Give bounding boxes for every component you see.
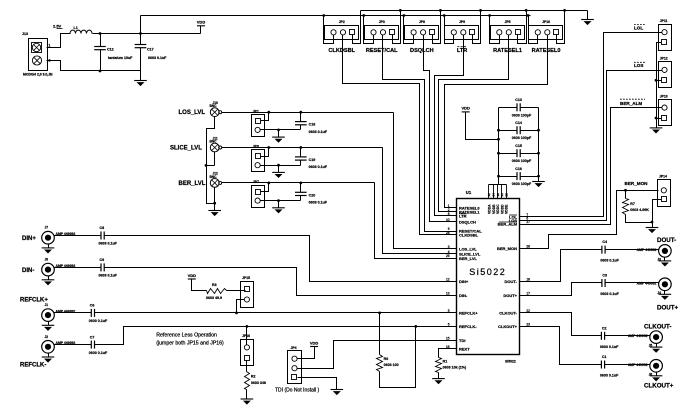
wire LOL from chip pin 7	[526, 33, 662, 217]
wire JP9 pin1 to VDD rail	[445, 16, 454, 44]
U1 pin 4 SLICE_LVL	[451, 253, 457, 255]
svg-text:J2: J2	[45, 335, 49, 339]
node JP9 VDD rail junction	[443, 14, 446, 17]
svg-text:JP1: JP1	[253, 109, 259, 113]
svg-text:Reference Less Operation: Reference Less Operation	[156, 333, 217, 339]
svg-text:C3: C3	[602, 274, 607, 278]
U1 pin 27 BER_ALM	[520, 224, 526, 226]
wire SLICE_LVL to chip	[383, 148, 451, 254]
U1 pin 1 RATESEL0	[451, 207, 457, 209]
svg-text:C9: C9	[100, 258, 105, 262]
svg-text:LTR: LTR	[457, 48, 467, 54]
svg-text:DIN+: DIN+	[459, 279, 469, 284]
U1 pin 17 DOUT+	[520, 295, 526, 297]
node JP6 signal junction	[267, 146, 270, 149]
svg-text:1: 1	[49, 44, 51, 48]
resistor R3	[207, 289, 227, 294]
node C20 top junction	[299, 182, 302, 185]
svg-text:CLKOUT-: CLKOUT-	[499, 311, 517, 316]
wire JP2 pin3 to GND rail	[353, 11, 361, 44]
ground at JP7	[278, 201, 280, 208]
U1 pin 7 LOL	[520, 216, 526, 218]
connector J12 BER_LVL BNC	[210, 179, 219, 188]
U1 pin 22 CLKOUT-	[520, 312, 526, 314]
svg-text:JP2: JP2	[339, 20, 345, 24]
svg-text:R2: R2	[251, 375, 256, 379]
svg-text:C15: C15	[515, 144, 522, 148]
wire JP4 pin3 to ground	[298, 378, 337, 390]
node JP7 gnd tap	[277, 199, 280, 202]
capacitor C14	[499, 130, 517, 132]
svg-text:BNC: BNC	[210, 175, 218, 179]
capacitor C1	[600, 361, 602, 369]
node R7 junction	[624, 189, 627, 192]
svg-text:U1: U1	[466, 190, 472, 195]
U1 pin 24 CLKDSBL	[451, 234, 457, 236]
wire JP11 JP12 JP13 ground chain	[657, 43, 662, 128]
svg-text:DIN-: DIN-	[459, 293, 468, 298]
svg-text:SLICE_LVL: SLICE_LVL	[170, 146, 202, 152]
ground at J8	[48, 276, 50, 280]
wire J1 to C6	[54, 312, 92, 314]
U1 pin 23 CLKOUT+	[520, 326, 526, 328]
svg-text:C2: C2	[602, 326, 607, 330]
VDD symbol at input filter	[197, 25, 205, 27]
svg-text:28: 28	[504, 193, 508, 197]
node JP10 GND rail junction	[563, 9, 566, 12]
connector J7 DIN+ SMA	[42, 231, 55, 244]
svg-text:VDDE: VDDE	[505, 204, 509, 214]
svg-text:JP11: JP11	[660, 19, 668, 23]
svg-text:JP12: JP12	[660, 57, 668, 61]
capacitor C16	[499, 176, 517, 178]
svg-text:JP9: JP9	[459, 20, 465, 24]
svg-text:R3: R3	[212, 283, 217, 287]
svg-text:6: 6	[448, 322, 450, 326]
wire DOUT- from chip	[526, 250, 602, 282]
svg-text:BER_ALM: BER_ALM	[620, 101, 642, 106]
node JP2 VDD rail junction	[322, 14, 325, 17]
ground below R2	[246, 390, 248, 399]
capacitor C4	[601, 246, 603, 254]
U1 pin 28 BER_MON	[520, 248, 526, 250]
svg-text:15: 15	[446, 337, 450, 341]
svg-text:2.5V: 2.5V	[53, 24, 62, 29]
wire JP6 circle pin to ground	[261, 165, 301, 167]
svg-text:L1: L1	[74, 26, 78, 30]
svg-text:VDD: VDD	[310, 340, 319, 345]
wire JP10 pin1 to VDD rail	[529, 16, 538, 44]
svg-text:J7: J7	[45, 226, 49, 230]
jumper JP15	[241, 282, 254, 308]
svg-text:0603 100pF: 0603 100pF	[512, 182, 532, 186]
wire JP14 pin2 to ground	[653, 200, 662, 228]
svg-text:0603 0.1uF: 0603 0.1uF	[600, 345, 619, 349]
wire JP9 pin3 to GND rail	[473, 11, 481, 44]
node JP8 VDD rail junction	[403, 14, 406, 17]
svg-text:JP15: JP15	[242, 276, 250, 280]
wire DOUT+ from chip	[526, 283, 602, 296]
svg-text:0603 0.1uF: 0603 0.1uF	[89, 351, 108, 355]
VDD feed for cap ladder	[462, 111, 470, 113]
svg-text:MODGH 2,9 3.0,JB: MODGH 2,9 3.0,JB	[23, 73, 53, 77]
svg-text:LOL: LOL	[634, 26, 643, 31]
capacitor C18	[300, 113, 302, 122]
svg-text:JP14: JP14	[659, 174, 667, 178]
svg-text:DOUT-: DOUT-	[505, 279, 518, 284]
capacitor C7	[90, 341, 92, 349]
connector J4 DOUT+ SMA	[659, 278, 672, 291]
svg-text:0603 0.1uF: 0603 0.1uF	[148, 56, 167, 60]
wire JP15 pin2 to REFCLK+	[237, 300, 245, 313]
BNC shield chain	[207, 117, 215, 204]
jumper JP14	[658, 180, 671, 207]
wire C4 to J3	[606, 249, 659, 251]
svg-text:0603 0.1uF: 0603 0.1uF	[99, 274, 118, 278]
node JP5 VDD rail junction	[488, 14, 491, 17]
ground at J7	[48, 245, 50, 248]
svg-text:DSQLCH: DSQLCH	[410, 48, 434, 54]
ground at J3	[664, 258, 666, 261]
svg-text:C19: C19	[309, 158, 316, 162]
svg-text:24: 24	[446, 231, 450, 235]
wire L1 to VDD tap	[93, 33, 201, 35]
svg-text:VDD: VDD	[197, 20, 206, 25]
wire CLKOUT+ from chip	[526, 327, 602, 365]
svg-text:BNC: BNC	[210, 104, 218, 108]
resistor R7	[625, 191, 627, 199]
connector J8 DIN- SMA	[42, 263, 55, 276]
svg-text:C16: C16	[515, 167, 522, 171]
svg-text:TDI (Do Not Install ): TDI (Do Not Install )	[275, 387, 320, 393]
node JP9 GND rail junction	[479, 9, 482, 12]
svg-text:DOUT+: DOUT+	[503, 293, 517, 298]
connector J2 SMA	[42, 341, 55, 354]
svg-text:DOUT-: DOUT-	[657, 237, 676, 244]
svg-text:0603 49.9: 0603 49.9	[206, 296, 222, 300]
wire JP7 square pin to signal	[261, 183, 269, 192]
jumper JP16	[241, 340, 254, 366]
node JP1 gnd tap	[277, 129, 280, 132]
U1 pin 16 REXT	[451, 348, 457, 350]
jumper JP9 LTR	[445, 26, 479, 40]
wire CLKDSBL signal to chip	[343, 35, 451, 235]
capacitor C19	[300, 148, 302, 157]
wire REXT to R1	[439, 349, 451, 358]
wire BER_LVL to chip	[375, 183, 451, 259]
wire JP4 pin1 to VDD	[298, 347, 315, 359]
wire C3 to J4	[606, 282, 659, 284]
ground at JP6	[278, 166, 280, 173]
svg-text:C7: C7	[90, 335, 95, 339]
node C18 top junction	[299, 111, 302, 114]
svg-text:C14: C14	[515, 121, 522, 125]
svg-text:LOS: LOS	[634, 63, 643, 68]
ground for BNC shields	[208, 210, 221, 212]
svg-text:0603 100pF: 0603 100pF	[512, 159, 532, 163]
svg-text:TDI: TDI	[459, 338, 465, 343]
wire JP1 circle pin to ground	[261, 129, 301, 131]
capacitor C13	[499, 107, 517, 109]
svg-text:AMP 449692: AMP 449692	[637, 248, 657, 252]
connector J6 CLKOUT+ SMA	[650, 360, 663, 373]
ground at JP1	[278, 130, 280, 138]
svg-text:0603 0.1uF: 0603 0.1uF	[600, 292, 619, 296]
svg-text:17: 17	[526, 292, 530, 296]
wire RESET/CAL signal to chip	[383, 35, 451, 232]
svg-text:JP6: JP6	[253, 145, 259, 149]
svg-text:tantalum 10uF: tantalum 10uF	[108, 56, 133, 60]
node R6 top junction	[378, 312, 381, 315]
capacitor C2	[600, 332, 602, 340]
ground at input filter	[140, 71, 142, 81]
wire JP4 pin2 TDI to chip pin 15	[298, 341, 451, 369]
node R6 REFCLK- junction	[414, 325, 417, 328]
svg-text:BER_MON: BER_MON	[497, 246, 517, 251]
node JP1 signal junction	[267, 111, 270, 114]
svg-text:CLKOUT+: CLKOUT+	[644, 383, 674, 390]
connector J5 CLKOUT- SMA	[650, 331, 663, 344]
wire REFCLK+ to chip pin 5	[95, 312, 451, 314]
wire REFCLK- to chip pin 6	[95, 327, 451, 345]
svg-text:DOUT+: DOUT+	[657, 305, 679, 312]
U1 pin 5 REFCLK+	[451, 312, 457, 314]
wire RATESEL0 signal to chip	[445, 35, 548, 208]
ground at J4	[664, 291, 666, 295]
svg-text:27: 27	[526, 220, 530, 224]
svg-text:18: 18	[526, 277, 530, 281]
svg-text:J13: J13	[22, 32, 28, 36]
ground below JP13	[650, 127, 663, 129]
svg-text:12: 12	[446, 277, 450, 281]
U1 pin 9 RESET/CAL	[451, 231, 457, 233]
jumper JP6	[252, 150, 265, 172]
capacitor C12	[100, 34, 102, 47]
capacitor C6	[90, 309, 92, 317]
svg-text:CLKOUT+: CLKOUT+	[498, 324, 518, 329]
svg-text:CLKOUT-: CLKOUT-	[644, 323, 672, 330]
wire SLICE_LVL row	[222, 147, 383, 149]
svg-text:C12: C12	[107, 48, 114, 52]
node JP5 GND rail junction	[525, 9, 528, 12]
jumper JP10 RATESEL0	[529, 26, 563, 40]
svg-text:SI5022: SI5022	[505, 360, 516, 364]
wire C2 to J5	[605, 335, 650, 337]
svg-text:JP5: JP5	[505, 20, 511, 24]
svg-text:C17: C17	[147, 48, 154, 52]
svg-text:JP3: JP3	[379, 20, 385, 24]
ground at top rail	[587, 11, 589, 20]
VDD at JP4	[310, 346, 318, 348]
svg-text:DIN+: DIN+	[22, 236, 36, 242]
node JP7 signal junction	[267, 182, 270, 185]
svg-text:RATESEL0: RATESEL0	[532, 48, 561, 54]
svg-text:0603 348: 0603 348	[251, 381, 266, 385]
connector J1 SMA	[42, 309, 55, 322]
U1 pin 6 REFCLK-	[451, 326, 457, 328]
node shield chain J11	[205, 164, 208, 167]
ground at J5	[656, 344, 658, 348]
svg-text:CLKDSBL: CLKDSBL	[459, 233, 479, 238]
svg-text:C20: C20	[309, 193, 316, 197]
node C19 top junction	[299, 146, 302, 149]
svg-text:23: 23	[526, 322, 530, 326]
wire JP16 pin1 to REFCLK-	[246, 327, 248, 345]
connector J10 LOS_LVL BNC	[210, 108, 219, 117]
svg-text:REXT: REXT	[459, 346, 470, 351]
svg-text:JP13: JP13	[660, 94, 668, 98]
svg-text:C1: C1	[602, 355, 607, 359]
VDD top rail	[141, 15, 531, 17]
svg-text:0603 0.1uF: 0603 0.1uF	[600, 374, 619, 378]
U1 pin 10 DSQLCH	[451, 221, 457, 223]
capacitor C8	[100, 232, 102, 240]
svg-text:0603 0.1uF: 0603 0.1uF	[99, 242, 118, 246]
jumper JP5 RATESEL1	[491, 26, 525, 40]
wire R6 to REFCLK-	[380, 327, 416, 388]
U1 top VDD pins	[489, 184, 507, 186]
resistor R2	[246, 361, 248, 372]
svg-text:C13: C13	[515, 98, 522, 102]
svg-text:JP4: JP4	[291, 346, 297, 350]
svg-text:10: 10	[446, 218, 450, 222]
U1 pin 13 DIN-	[451, 295, 457, 297]
ground at J6	[656, 373, 658, 376]
wire JP5 pin3 to GND rail	[518, 11, 527, 44]
jumper JP8 DSQLCH	[405, 26, 439, 40]
svg-text:Si5022: Si5022	[469, 267, 506, 277]
wire J8 to C9	[54, 267, 101, 269]
svg-text:(jumper both JP15 and JP16): (jumper both JP15 and JP16)	[156, 341, 224, 347]
svg-text:R7: R7	[630, 202, 635, 206]
svg-text:BER_LVL: BER_LVL	[179, 181, 206, 187]
resistor R1	[436, 358, 442, 373]
wire LOS_LVL to chip	[394, 113, 451, 249]
capacitor C15	[499, 153, 517, 155]
wire JP3 pin3 to GND rail	[393, 11, 401, 44]
capacitor C20	[300, 183, 302, 193]
capacitor C9	[100, 263, 102, 271]
node junction C17 and rail	[139, 32, 142, 35]
wire C1 to J6	[605, 364, 650, 366]
connector J11 SLICE_LVL BNC	[210, 143, 219, 152]
wire R7 to ground	[626, 215, 653, 223]
svg-text:R1: R1	[443, 359, 448, 363]
svg-text:26: 26	[446, 254, 450, 258]
svg-text:RATESEL1: RATESEL1	[493, 48, 522, 54]
svg-text:0603 0.1uF: 0603 0.1uF	[89, 319, 108, 323]
ground at JP4	[331, 389, 344, 391]
wire LOS_LVL row	[222, 112, 394, 114]
wire JP5 pin1 to VDD rail	[490, 16, 500, 44]
U1 pin 15 TDI	[451, 340, 457, 342]
svg-text:0603 4.99K: 0603 4.99K	[630, 208, 649, 212]
ground at JP14	[646, 227, 659, 229]
svg-text:0603 100pF: 0603 100pF	[512, 136, 532, 140]
GND top rail	[361, 10, 588, 12]
svg-text:0603 0.1uF: 0603 0.1uF	[600, 259, 619, 263]
jumper JP11 LOL	[659, 25, 672, 51]
svg-text:JP10: JP10	[542, 20, 550, 24]
node JP6 gnd tap	[277, 164, 280, 167]
svg-text:DSQLCH: DSQLCH	[459, 219, 476, 224]
svg-text:BNC: BNC	[210, 140, 218, 144]
jumper JP4 TDI header	[288, 351, 302, 384]
U1 pin 26 BER_LVL	[451, 258, 457, 260]
svg-text:JP7: JP7	[253, 180, 259, 184]
wire BER_ALM from chip pin 27	[526, 108, 662, 225]
svg-text:VDD: VDD	[461, 106, 470, 111]
svg-text:VDD: VDD	[188, 273, 197, 278]
svg-text:0603 0.1uF: 0603 0.1uF	[309, 165, 328, 169]
svg-text:C8: C8	[100, 226, 105, 230]
capacitor C17	[140, 16, 142, 45]
U1 pin 6 LOS	[520, 220, 526, 222]
jumper JP1	[252, 115, 265, 137]
wire LTR signal to chip	[435, 35, 464, 216]
svg-text:0603 0.1uF: 0603 0.1uF	[309, 201, 328, 205]
wire JP6 square pin to signal	[261, 148, 269, 157]
svg-text:BER_LVL: BER_LVL	[459, 256, 477, 261]
jumper JP3 RESET/CAL	[365, 26, 399, 40]
svg-text:13: 13	[446, 292, 450, 296]
node VDD feed junction	[497, 138, 500, 141]
svg-text:DIN-: DIN-	[22, 268, 34, 274]
node R7 gnd junction	[651, 221, 654, 224]
wire DIN- to chip pin 13	[105, 268, 451, 296]
wire JP1 square pin to signal	[261, 113, 269, 121]
wire RATESEL1 signal to chip	[439, 35, 509, 212]
VDD for R3	[188, 278, 196, 280]
resistor R6	[379, 313, 381, 355]
wire JP10 pin3 to GND rail	[557, 11, 565, 44]
U1 pin 2 RATESEL1	[451, 211, 457, 213]
svg-text:J1: J1	[45, 303, 49, 307]
svg-text:C6: C6	[90, 304, 95, 308]
U1 pin 18 DOUT-	[520, 281, 526, 283]
svg-text:28: 28	[526, 244, 530, 248]
svg-text:0603 100pF: 0603 100pF	[512, 113, 532, 117]
node L1 output junction with C12	[99, 32, 102, 35]
jumper JP12 LOS	[659, 62, 672, 88]
svg-text:R6: R6	[384, 357, 389, 361]
wire R3 to JP15	[227, 290, 246, 292]
svg-text:8: 8	[448, 212, 450, 216]
wire JP3 pin1 to VDD rail	[364, 16, 374, 44]
svg-text:0603 10k (1%): 0603 10k (1%)	[443, 366, 467, 370]
node ground chain JP13	[655, 117, 658, 120]
node JP16 REFCLK- junction	[246, 325, 249, 328]
ground at cap ladder	[532, 181, 545, 183]
svg-text:0603 0.1uF: 0603 0.1uF	[309, 130, 328, 134]
svg-text:AMP 449692: AMP 449692	[637, 281, 657, 285]
wire JP2 pin1 to VDD rail	[324, 16, 334, 44]
node JP15 REFCLK+ junction	[235, 312, 238, 315]
IC U1 Si5022 body	[457, 199, 520, 355]
decoupling cap ladder rails	[498, 108, 500, 185]
wire JP8 pin3 to GND rail	[433, 11, 441, 44]
svg-text:AMP 449692: AMP 449692	[628, 334, 648, 338]
wire DIN+ to chip pin 12	[105, 236, 451, 282]
connector J3 DOUT- SMA	[659, 245, 672, 258]
wire J2 to C7	[54, 344, 92, 346]
svg-text:REFCLK-: REFCLK-	[459, 324, 477, 329]
wire JP7 circle pin to ground	[261, 200, 301, 202]
ground at J1	[48, 322, 50, 326]
svg-text:J8: J8	[45, 258, 49, 262]
svg-text:LOS_LVL: LOS_LVL	[179, 110, 206, 116]
svg-text:C4: C4	[602, 240, 607, 244]
